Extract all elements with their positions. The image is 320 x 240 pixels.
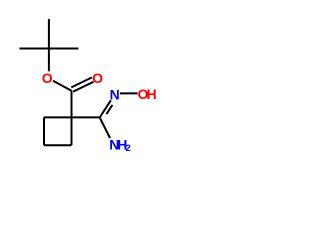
svg-text:N: N: [110, 86, 120, 102]
svg-text:H: H: [146, 86, 156, 102]
svg-text:2: 2: [125, 143, 130, 154]
svg-text:O: O: [42, 70, 53, 86]
svg-text:O: O: [92, 70, 103, 86]
